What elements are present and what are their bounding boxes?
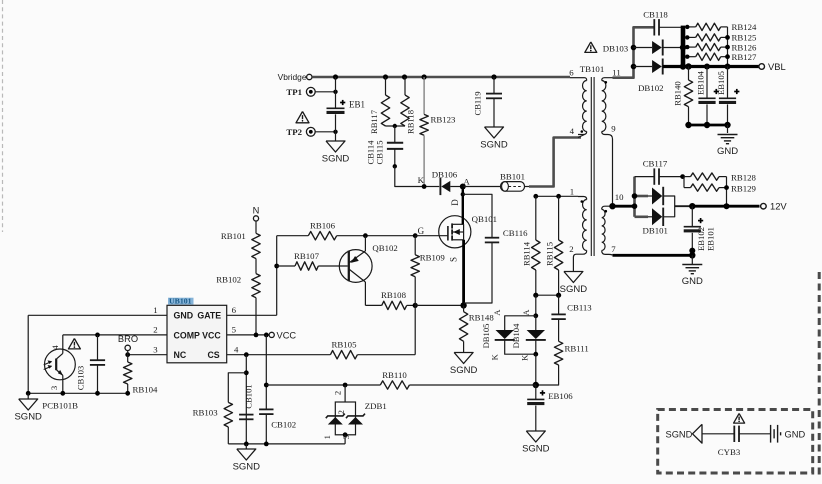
- svg-text:3: 3: [153, 345, 158, 355]
- svg-text:2: 2: [153, 324, 157, 334]
- svg-text:6: 6: [232, 305, 237, 315]
- svg-text:RB110: RB110: [382, 370, 407, 380]
- svg-text:GND: GND: [174, 311, 194, 321]
- svg-text:11: 11: [612, 68, 620, 78]
- svg-text:EB104: EB104: [696, 70, 706, 95]
- svg-text:DB101: DB101: [643, 226, 668, 236]
- svg-text:EB105: EB105: [716, 71, 726, 95]
- svg-text:RB111: RB111: [565, 344, 589, 354]
- svg-text:PCB101B: PCB101B: [42, 400, 78, 410]
- svg-text:CB116: CB116: [503, 228, 528, 238]
- svg-text:TB101: TB101: [580, 64, 604, 74]
- svg-text:CB101: CB101: [244, 384, 254, 408]
- svg-text:EB106: EB106: [548, 391, 573, 401]
- svg-text:RB107: RB107: [294, 251, 320, 261]
- svg-text:4: 4: [50, 345, 60, 350]
- svg-text:UB101: UB101: [169, 297, 192, 306]
- svg-text:SGND: SGND: [666, 430, 693, 440]
- svg-text:NC: NC: [174, 350, 187, 360]
- svg-text:VCC: VCC: [277, 330, 297, 340]
- svg-text:SGND: SGND: [14, 412, 42, 423]
- svg-text:4: 4: [570, 126, 575, 136]
- svg-text:DB106: DB106: [432, 170, 458, 180]
- svg-text:QB102: QB102: [372, 243, 397, 253]
- svg-text:CB115: CB115: [375, 140, 385, 164]
- svg-text:RB115: RB115: [544, 242, 554, 266]
- svg-text:SGND: SGND: [560, 284, 588, 295]
- svg-text:K: K: [418, 175, 425, 185]
- svg-text:SGND: SGND: [233, 462, 261, 473]
- svg-text:1: 1: [322, 435, 332, 439]
- svg-text:CB117: CB117: [643, 159, 668, 169]
- svg-text:EB101: EB101: [705, 227, 715, 251]
- svg-text:GND: GND: [682, 276, 703, 287]
- svg-text:CB102: CB102: [271, 420, 296, 430]
- svg-text:2: 2: [569, 244, 573, 254]
- svg-text:9: 9: [611, 124, 616, 134]
- svg-text:RB123: RB123: [431, 115, 457, 125]
- svg-text:D: D: [450, 199, 460, 206]
- svg-text:RB125: RB125: [732, 33, 758, 43]
- svg-text:2: 2: [336, 410, 346, 414]
- svg-text:GATE: GATE: [197, 311, 221, 321]
- svg-text:RB102: RB102: [216, 275, 241, 285]
- svg-text:10: 10: [615, 192, 624, 202]
- svg-text:CB113: CB113: [567, 303, 592, 313]
- svg-text:RB106: RB106: [310, 221, 336, 231]
- svg-text:6: 6: [569, 68, 574, 78]
- svg-text:S: S: [449, 257, 459, 262]
- svg-text:RB105: RB105: [332, 340, 358, 350]
- svg-text:QB101: QB101: [472, 214, 497, 224]
- svg-text:A: A: [492, 309, 502, 316]
- svg-text:2: 2: [332, 391, 342, 395]
- svg-text:DB104: DB104: [511, 323, 521, 349]
- svg-text:GND: GND: [785, 430, 806, 440]
- svg-text:A: A: [463, 176, 470, 186]
- svg-text:K: K: [520, 354, 530, 361]
- svg-text:RB108: RB108: [381, 290, 407, 300]
- svg-text:SGND: SGND: [322, 154, 350, 165]
- svg-text:CYB3: CYB3: [718, 447, 741, 457]
- svg-text:RB114: RB114: [522, 241, 532, 266]
- svg-text:CB103: CB103: [76, 366, 86, 390]
- svg-text:RB118: RB118: [406, 110, 416, 134]
- svg-text:A: A: [521, 309, 531, 316]
- svg-text:VBL: VBL: [768, 61, 786, 72]
- svg-text:RB126: RB126: [732, 42, 758, 52]
- svg-text:COMP: COMP: [174, 330, 201, 340]
- svg-text:Vbridge: Vbridge: [278, 72, 307, 82]
- svg-text:CB119: CB119: [473, 91, 483, 115]
- svg-text:RB127: RB127: [732, 52, 758, 62]
- svg-text:12V: 12V: [770, 201, 787, 212]
- svg-text:RB124: RB124: [732, 22, 758, 32]
- svg-text:K: K: [489, 353, 499, 360]
- svg-text:TP1: TP1: [286, 87, 302, 97]
- svg-text:ZDB1: ZDB1: [365, 401, 387, 411]
- svg-text:3: 3: [49, 386, 59, 390]
- svg-text:VCC: VCC: [202, 330, 221, 340]
- svg-text:RB117: RB117: [369, 109, 379, 134]
- svg-text:RB101: RB101: [221, 231, 246, 241]
- svg-text:SGND: SGND: [450, 365, 478, 376]
- svg-text:EB1: EB1: [349, 100, 365, 110]
- svg-text:1: 1: [570, 187, 574, 197]
- svg-text:4: 4: [234, 344, 239, 354]
- svg-text:1: 1: [153, 305, 157, 315]
- svg-text:DB102: DB102: [638, 83, 663, 93]
- svg-text:DB105: DB105: [481, 324, 491, 349]
- svg-text:RB129: RB129: [731, 183, 757, 193]
- svg-text:SGND: SGND: [480, 140, 508, 151]
- svg-text:CS: CS: [207, 350, 219, 360]
- svg-text:RB103: RB103: [193, 408, 219, 418]
- svg-text:DB103: DB103: [603, 44, 629, 54]
- svg-text:RB109: RB109: [420, 253, 446, 263]
- svg-text:7: 7: [611, 244, 616, 254]
- svg-text:SGND: SGND: [522, 444, 550, 455]
- svg-text:TP2: TP2: [286, 127, 302, 137]
- svg-text:N: N: [253, 206, 260, 216]
- svg-text:RB148: RB148: [469, 313, 495, 323]
- svg-text:RB104: RB104: [133, 384, 159, 394]
- svg-text:RB140: RB140: [672, 81, 682, 105]
- svg-text:BRO: BRO: [118, 334, 138, 344]
- svg-text:5: 5: [232, 324, 237, 334]
- svg-text:BB101: BB101: [500, 172, 525, 182]
- svg-text:GND: GND: [717, 146, 738, 157]
- svg-text:G: G: [418, 226, 425, 236]
- svg-text:CB118: CB118: [643, 10, 668, 20]
- svg-text:RB128: RB128: [731, 172, 757, 182]
